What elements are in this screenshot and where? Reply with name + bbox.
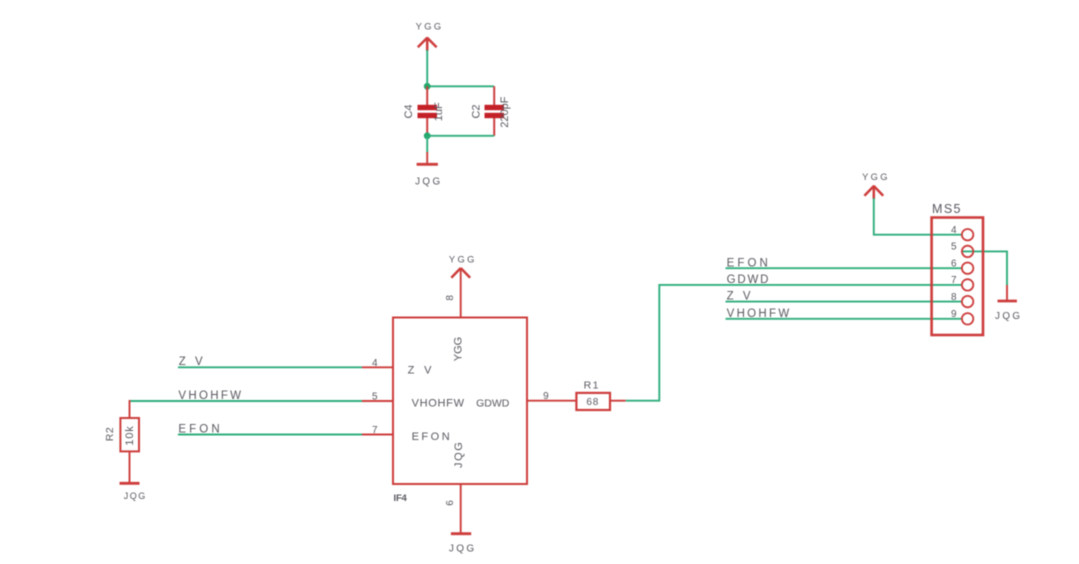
wire net Z V (178, 366, 362, 368)
svg-text:5: 5 (372, 392, 378, 403)
svg-text:4: 4 (372, 358, 378, 369)
wire net VHOHFW to connector (726, 318, 962, 320)
power VDD symbol (net YGG) near connector (862, 172, 890, 199)
wire connector pin 5 to ground (961, 251, 1007, 285)
node junction top (C4/C2 VDD net) (424, 83, 431, 90)
connector pad pin 6 (962, 263, 973, 274)
svg-text:JQG: JQG (415, 177, 442, 188)
wire R1 to connector pin 7 (net GDWD) (626, 285, 962, 401)
svg-text:7: 7 (372, 425, 378, 436)
svg-text:8: 8 (951, 292, 957, 303)
svg-text:68: 68 (586, 397, 599, 408)
svg-text:Z V: Z V (408, 365, 435, 377)
wire net Z V to connector (726, 301, 962, 303)
ground symbol (net JQG) below IC (449, 534, 477, 555)
svg-text:GDWD: GDWD (476, 398, 510, 410)
svg-text:YGG: YGG (416, 21, 444, 31)
svg-text:IF4: IF4 (394, 493, 408, 504)
connector pad pin 7 (962, 279, 973, 290)
IC pin 7 stub (362, 434, 393, 436)
svg-text:YGG: YGG (449, 254, 477, 264)
connector pad pin 4 (962, 229, 973, 240)
svg-text:R2: R2 (104, 427, 116, 441)
svg-text:VHOHFW: VHOHFW (412, 398, 465, 410)
svg-text:JQG: JQG (995, 311, 1022, 322)
wire top junction to C2 branch (427, 85, 494, 87)
svg-text:MS5: MS5 (932, 202, 962, 216)
connector MS5 body (932, 218, 983, 336)
wire from VDD symbol to top junction (426, 50, 428, 86)
svg-text:JQG: JQG (453, 441, 465, 468)
connector pad pin 5 (962, 246, 973, 257)
wire net EFON (178, 434, 362, 436)
svg-text:4: 4 (951, 225, 957, 236)
wire bottom junction to ground (426, 136, 428, 153)
svg-text:EFON: EFON (412, 431, 453, 443)
svg-text:9: 9 (951, 309, 957, 320)
svg-text:220pF: 220pF (499, 96, 511, 127)
svg-text:C2: C2 (470, 104, 482, 118)
svg-text:GDWD: GDWD (727, 274, 771, 286)
svg-text:10k: 10k (124, 425, 136, 445)
svg-text:6: 6 (445, 500, 456, 506)
IC pin 5 stub (362, 400, 393, 402)
capacitor C2 220pF (470, 86, 511, 136)
svg-text:JQG: JQG (449, 543, 477, 554)
svg-text:5: 5 (951, 242, 957, 253)
IC pin 9 stub (GDWD) to R1 (527, 400, 576, 402)
ground symbol (net JQG) below C4 (415, 152, 442, 188)
wire VDD to connector pin 4 (874, 198, 962, 235)
ground symbol (net JQG) right of connector (995, 285, 1022, 322)
power VDD symbol (net YGG) above C4 (416, 21, 444, 51)
svg-text:8: 8 (445, 295, 456, 301)
wire C2 bottom back to bottom junction (427, 135, 494, 137)
wire net VHOHFW (130, 400, 363, 402)
capacitor C4 1uF (403, 86, 445, 136)
svg-text:R1: R1 (584, 380, 600, 392)
svg-text:C4: C4 (403, 104, 415, 118)
resistor R2 10k (104, 400, 139, 483)
wire net EFON to connector (726, 267, 962, 269)
connector pad pin 8 (962, 296, 973, 307)
svg-text:6: 6 (951, 259, 957, 270)
svg-text:1uF: 1uF (433, 102, 445, 121)
ground symbol (net JQG) below R2 (120, 483, 147, 501)
svg-text:9: 9 (543, 391, 549, 402)
resistor R1 68 (576, 380, 625, 411)
IC pin 6 stub to GND (460, 484, 462, 533)
svg-text:7: 7 (951, 275, 957, 286)
IC pin 4 stub (362, 366, 393, 368)
IC pin 8 stub to VDD (460, 268, 462, 318)
power VDD symbol (net YGG) above IC (449, 254, 477, 277)
svg-text:YGG: YGG (862, 172, 890, 182)
svg-text:JQG: JQG (124, 491, 147, 501)
svg-text:YGG: YGG (452, 337, 464, 361)
node junction bottom (C4/C2 GND net) (424, 132, 431, 139)
connector pad pin 9 (962, 313, 973, 324)
IC U1 (IF4) body (393, 318, 527, 485)
